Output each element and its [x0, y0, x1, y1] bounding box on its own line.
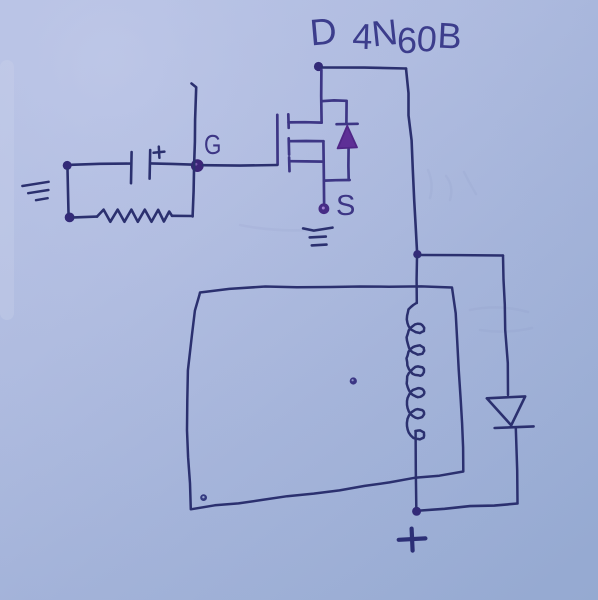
wire resistor to gate vertical — [172, 215, 193, 218]
wire gate node to MOSFET gate — [203, 164, 277, 167]
label + (capacitor polarity) — [154, 147, 165, 158]
body diode anode lead — [347, 147, 350, 180]
svg-text:0: 0 — [415, 18, 438, 60]
winding polarity dot (bottom-left) — [200, 494, 207, 501]
node bottom-left — [65, 213, 75, 223]
wire left vertical between nodes — [68, 169, 69, 213]
diode D1 (output rectifier) — [487, 396, 534, 428]
ground below source — [303, 228, 332, 246]
inductor L1 (transformer primary winding) — [407, 304, 425, 440]
drain lead vertical — [320, 70, 323, 123]
label + (output polarity) — [399, 529, 426, 551]
body diode arrow (filled) — [338, 126, 357, 149]
channel segment middle — [287, 138, 290, 154]
wire capacitor to gate node — [151, 163, 192, 164]
transformer core outline — [187, 286, 463, 509]
node drain D — [314, 62, 323, 71]
node plus (output +) — [412, 507, 421, 516]
channel segment bottom — [288, 157, 291, 171]
wire drain node to top-right corner — [322, 68, 406, 69]
svg-text:D: D — [308, 10, 338, 53]
drain lead horizontal — [289, 121, 322, 124]
wire right vertical down to diode — [503, 256, 508, 396]
capacitor C1 — [131, 150, 150, 183]
channel segment top — [287, 114, 290, 127]
body diode branch top — [321, 100, 346, 123]
svg-text:N: N — [370, 11, 400, 54]
node top-left — [63, 161, 72, 170]
bottom channel to source — [290, 160, 324, 163]
MOSFET Q1 4N60B — [277, 70, 357, 203]
source vertical — [322, 141, 325, 202]
wire inductor bottom to plus node — [414, 432, 417, 507]
wire bottom: diode to plus node — [421, 504, 518, 511]
resistor R1 — [97, 210, 172, 222]
winding polarity dot (center) — [350, 377, 357, 384]
svg-text:S: S — [336, 190, 355, 222]
label part number 4N60B — [352, 11, 463, 61]
gate bar — [276, 115, 279, 165]
wire gate stub vertical (through node to resistor) — [192, 84, 197, 217]
svg-text:G: G — [204, 130, 221, 161]
svg-text:6: 6 — [397, 20, 417, 61]
svg-text:B: B — [437, 15, 463, 57]
wire right vertical from corner down to junction — [406, 69, 417, 252]
body diode cathode bar — [337, 122, 358, 125]
wire junction down to inductor — [415, 257, 418, 303]
source to body diode bottom — [324, 179, 350, 182]
wire diode cathode down — [516, 428, 518, 503]
node source S — [319, 203, 330, 214]
wire junction to right — [421, 254, 503, 257]
faint show-through marks — [240, 170, 532, 332]
wire top-left node to capacitor — [71, 164, 130, 165]
wire bottom-left node to resistor — [74, 215, 97, 218]
node junction (drain rail / transformer primary top) — [413, 250, 421, 258]
middle channel to source — [289, 140, 323, 143]
ground left — [22, 182, 48, 200]
node gate G — [191, 159, 204, 172]
